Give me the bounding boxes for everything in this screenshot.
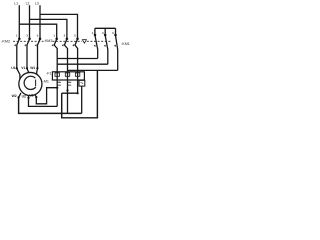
svg-text:1: 1	[92, 31, 94, 35]
svg-text:U2: U2	[22, 94, 26, 98]
svg-text:-F1: -F1	[46, 71, 52, 75]
svg-text:1: 1	[16, 34, 18, 38]
svg-text:L3: L3	[35, 2, 39, 6]
svg-text:W2: W2	[12, 94, 17, 98]
svg-text:5: 5	[112, 31, 114, 35]
svg-text:-KM1: -KM1	[121, 42, 130, 46]
svg-text:L1: L1	[14, 2, 18, 6]
svg-text:3: 3	[26, 34, 28, 38]
svg-text:-KM2: -KM2	[1, 40, 10, 44]
svg-text:1: 1	[53, 34, 55, 38]
svg-text:W1: W1	[30, 66, 35, 70]
svg-text:5: 5	[74, 34, 76, 38]
svg-text:L2: L2	[26, 2, 30, 6]
svg-text:V2: V2	[29, 93, 33, 97]
svg-text:3: 3	[102, 31, 104, 35]
svg-text:-M1: -M1	[43, 80, 49, 84]
svg-text:-KM3: -KM3	[44, 39, 53, 43]
svg-text:U1: U1	[11, 66, 15, 70]
svg-text:V1: V1	[21, 66, 25, 70]
svg-text:3: 3	[64, 34, 66, 38]
svg-text:5: 5	[37, 34, 39, 38]
